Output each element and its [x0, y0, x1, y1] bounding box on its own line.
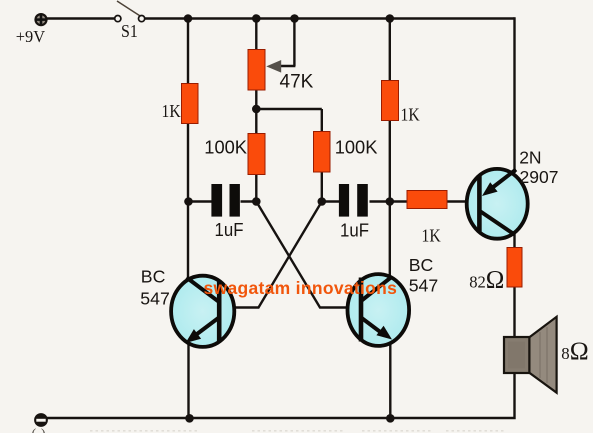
node: rail / right branch [386, 14, 395, 23]
potentiometer VR1 47K body [248, 50, 265, 91]
wire: pot wiper vertical from rail [293, 19, 295, 67]
svg-text:547: 547 [409, 275, 439, 295]
svg-text:1K: 1K [401, 104, 421, 124]
svg-text:100K: 100K [335, 137, 378, 158]
svg-text:S1: S1 [121, 21, 138, 41]
svg-text:BC: BC [141, 267, 166, 287]
node: Q1 collector / C1 left [184, 197, 193, 206]
wire: top rail from S1 to top-right corner [145, 17, 515, 19]
wire: left branch vertical (rail to Q1 collector) [187, 19, 189, 281]
speaker LS1 [504, 317, 557, 393]
transistor Q2 BC547 (right NPN) [348, 274, 410, 346]
capacitor C2 plates [339, 184, 368, 217]
wire: cap C1 left lead [188, 200, 212, 202]
transistor Q1 BC547 (left, mirrored NPN) [171, 276, 234, 347]
potentiometer wiper arrow [266, 60, 281, 73]
svg-text:2N: 2N [519, 148, 541, 168]
wire: pot wiper horizontal to arrow [278, 65, 296, 67]
wire: right 1K branch vertical (rail to Q2 collector) [389, 19, 391, 279]
node: C2 left / right 100K bottom [318, 197, 327, 206]
resistor 100K (left) [248, 134, 265, 175]
node: C2 right / Q2 collector [386, 197, 395, 206]
wire: cap C2 left lead [322, 200, 341, 202]
svg-text:1uF: 1uF [340, 219, 369, 240]
resistor 1K (Q3 base, horizontal) [407, 191, 447, 209]
switch S1 right contact [139, 16, 145, 22]
battery + terminal [34, 13, 47, 26]
node: rail / wiper [290, 14, 299, 23]
svg-text:1K: 1K [422, 225, 442, 245]
capacitor C1 plates [211, 184, 240, 217]
resistor 100K (right) [314, 132, 331, 173]
switch S1 lever [117, 1, 140, 16]
svg-text:(-): (-) [32, 427, 46, 433]
svg-text:BC: BC [409, 255, 434, 275]
svg-text:47K: 47K [280, 72, 314, 93]
svg-text:1K: 1K [162, 101, 182, 121]
switch S1 left contact [115, 16, 121, 22]
wire: Q3 collector down to speaker [513, 234, 515, 338]
wire: speaker to bottom rail corner [42, 372, 515, 418]
faint cropped artifacts along bottom edge [90, 430, 505, 432]
wire: Q2 emitter to bottom rail [389, 341, 391, 418]
wire: +9V terminal to S1 left contact [47, 17, 116, 19]
svg-text:swagatam innovations: swagatam innovations [204, 278, 398, 298]
svg-text:547: 547 [140, 289, 170, 309]
wire: pot branch vertical (rail through 47K and 100K to cap node) [255, 19, 257, 202]
wire: Q1 emitter to bottom rail [187, 342, 189, 418]
node: C1 right / left 100K bottom [252, 197, 261, 206]
battery - terminal [34, 413, 48, 427]
wire: right 100K vertical [321, 109, 323, 202]
svg-text:2907: 2907 [520, 167, 559, 187]
resistor 1K (right branch) [382, 81, 399, 121]
wire: cross coupling diagonal to Q2 base [256, 202, 346, 308]
wire: right drop from rail to 2N2907 emitter [513, 17, 515, 173]
svg-text:100K: 100K [204, 137, 247, 158]
node: rail / left branch [184, 14, 193, 23]
resistor R1 1K (left) [182, 84, 199, 124]
node: bottom rail / Q2 emitter [386, 414, 395, 423]
node: bottom rail / Q1 emitter [185, 414, 194, 423]
node: pot bottom / 100K row [252, 105, 261, 114]
transistor Q3 2N2907 (PNP) [467, 169, 528, 239]
wire: cap C1 right lead [241, 200, 258, 202]
wire: cross coupling diagonal to Q1 base [234, 202, 322, 308]
node: rail / pot top [252, 14, 261, 23]
wire: cap C2 to base resistor to Q3 base [370, 200, 467, 202]
resistor 82 ohm [507, 248, 522, 288]
wire: node row y=109 horizontal [256, 108, 322, 110]
svg-text:+9V: +9V [16, 27, 45, 46]
svg-text:1uF: 1uF [215, 219, 244, 240]
